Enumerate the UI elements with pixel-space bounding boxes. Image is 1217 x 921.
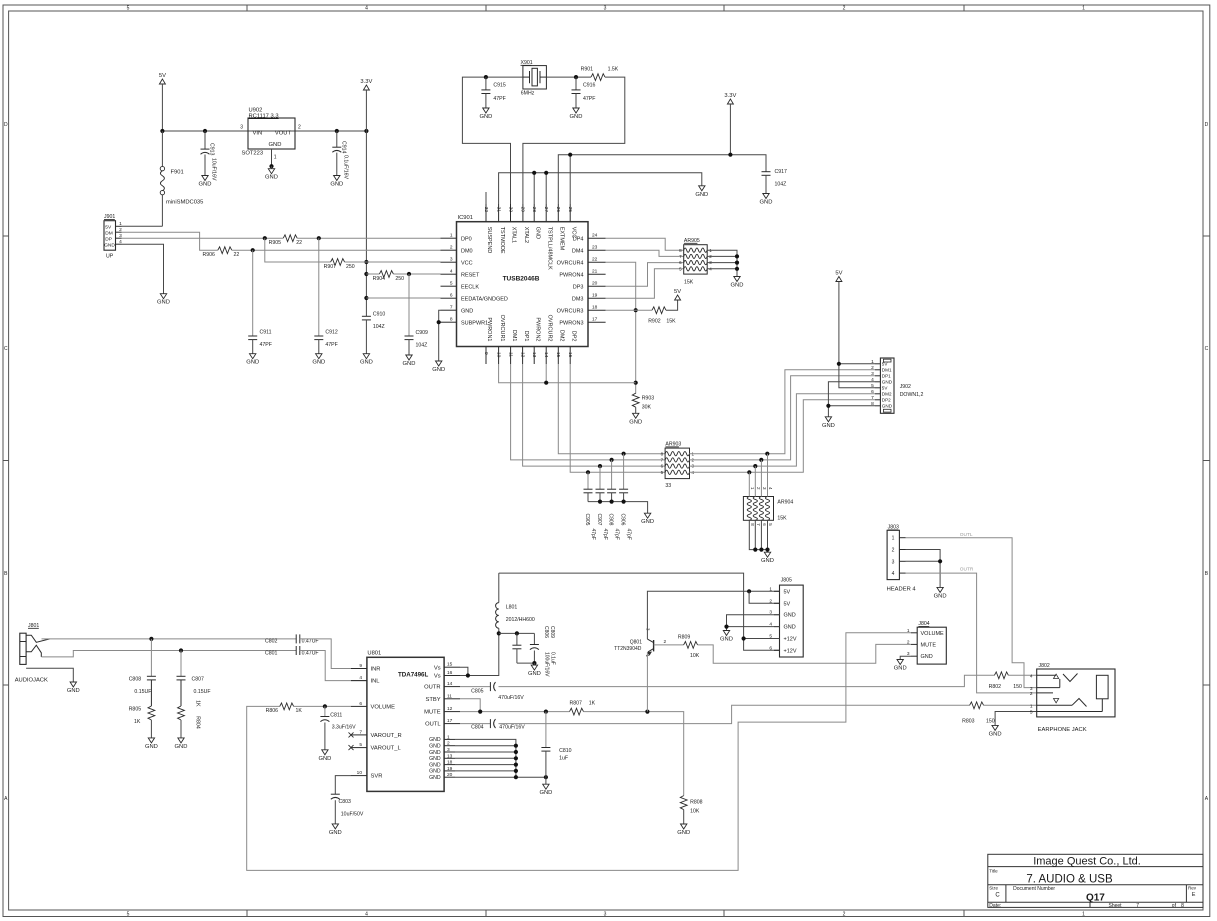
svg-text:C909: C909 (416, 330, 429, 336)
svg-text:10K: 10K (690, 653, 700, 659)
ground GND for AR905 (731, 277, 744, 289)
svg-text:HEADER 4: HEADER 4 (887, 587, 917, 593)
svg-text:GND: GND (629, 419, 642, 425)
wire R903 to ground (635, 407, 637, 413)
svg-text:VAROUT_L: VAROUT_L (371, 746, 402, 752)
svg-text:20: 20 (592, 281, 598, 287)
resistor R904 250 (373, 271, 405, 282)
IC901 top pin stubs and numbers (483, 204, 577, 270)
svg-text:F901: F901 (171, 170, 184, 176)
svg-text:2: 2 (871, 365, 874, 371)
svg-text:Date:: Date: (989, 903, 1001, 909)
svg-text:GND: GND (432, 367, 445, 373)
svg-text:12: 12 (519, 352, 525, 358)
wire J901 pin4 GND (122, 244, 164, 294)
wire J901 pin3 DP (122, 237, 265, 239)
svg-text:3: 3 (604, 912, 607, 918)
ground GND for SUBPWR (432, 361, 445, 373)
svg-text:L801: L801 (506, 605, 518, 611)
svg-text:2: 2 (1030, 691, 1033, 697)
svg-text:GND: GND (403, 361, 416, 367)
svg-text:R809: R809 (678, 634, 691, 640)
svg-text:R805: R805 (129, 707, 142, 713)
svg-text:OVRCUR1: OVRCUR1 (499, 315, 505, 342)
wire IC901 pin7 GND to pin8 SUBPWR1 and ground (437, 310, 441, 361)
svg-text:Title: Title (989, 869, 998, 874)
wire DM2 pin15 to AR903 pin8 (558, 364, 665, 454)
svg-text:R808: R808 (690, 800, 703, 806)
svg-text:C803: C803 (339, 799, 352, 805)
ground GND for earphone jack (989, 725, 1002, 737)
svg-text:5V: 5V (784, 601, 791, 607)
svg-text:GND: GND (534, 227, 540, 239)
svg-text:5V: 5V (674, 289, 681, 295)
svg-text:13: 13 (447, 753, 453, 759)
svg-text:3: 3 (447, 747, 450, 753)
svg-text:Document Number: Document Number (1013, 886, 1055, 892)
wire Q801 emitter to mute node (646, 652, 648, 711)
svg-text:DP0: DP0 (461, 236, 472, 242)
resistor R903 30K (632, 393, 654, 410)
resistor R808 10K (680, 796, 702, 824)
svg-text:5: 5 (359, 742, 362, 748)
wire jack sleeve to ground (26, 668, 73, 682)
svg-text:GND: GND (429, 750, 441, 756)
wire DP4 pin24 to AR905 pin8 (606, 238, 684, 250)
svg-text:9: 9 (483, 352, 489, 355)
wire R803 to earphone jack pin1 (984, 704, 1037, 706)
inductor L801 2012/HH600 (496, 573, 535, 633)
connector J902 DOWN1,2 (871, 358, 923, 413)
svg-text:2: 2 (769, 598, 772, 604)
power symbol 3.3V (360, 79, 372, 90)
svg-text:GND: GND (104, 242, 115, 248)
ground GND below C916 (570, 108, 583, 120)
svg-text:2: 2 (892, 548, 895, 554)
svg-text:8: 8 (450, 317, 453, 323)
resistor R902 15K (648, 307, 676, 324)
svg-text:+12V: +12V (784, 648, 797, 654)
svg-text:GND: GND (329, 830, 342, 836)
wire OVRCUR3 pin18 to R902 (606, 309, 652, 311)
svg-text:R807: R807 (570, 700, 583, 706)
svg-text:GND: GND (921, 654, 933, 660)
svg-text:D: D (4, 122, 8, 128)
svg-text:C809: C809 (549, 626, 555, 638)
svg-text:5V: 5V (882, 362, 889, 367)
svg-text:1K: 1K (589, 700, 596, 706)
svg-text:1: 1 (447, 734, 450, 740)
capacitor C802 0.47UF (265, 634, 319, 644)
svg-text:12: 12 (447, 706, 453, 712)
ground GND below C803 (329, 824, 342, 836)
svg-text:AR904: AR904 (777, 500, 793, 506)
ground GND below AR904 (761, 552, 774, 564)
svg-text:22: 22 (234, 252, 240, 258)
svg-text:J902: J902 (900, 384, 911, 390)
svg-text:19: 19 (447, 766, 453, 772)
node junctions on 3.3V rail (364, 260, 368, 300)
wire R901 to XTAL2 loop (523, 77, 625, 204)
svg-text:15K: 15K (777, 516, 787, 522)
svg-text:C912: C912 (325, 329, 338, 335)
wire DP pullup branch down to R907 row (265, 238, 331, 262)
svg-text:J805: J805 (781, 578, 792, 584)
resistor R805 1K (129, 706, 155, 738)
svg-text:1K: 1K (134, 719, 141, 725)
svg-text:4: 4 (365, 912, 368, 918)
ground GND for audio jack (67, 682, 80, 694)
svg-text:5: 5 (127, 6, 130, 12)
svg-text:0.47UF: 0.47UF (302, 650, 319, 656)
wire OVRCUR1 pin10 / OVRCUR2 pin14 bus (499, 364, 636, 385)
svg-text:3: 3 (604, 6, 607, 12)
ground GND below C915 (479, 108, 492, 120)
svg-text:4: 4 (871, 377, 874, 383)
svg-text:C905: C905 (584, 514, 590, 526)
svg-text:TSTMODE: TSTMODE (499, 227, 505, 254)
svg-text:10uF/16V: 10uF/16V (211, 158, 217, 181)
wire AR903 out row3 to J902 DM2 (690, 394, 876, 468)
wire VOLUME loop from J804 pin1 (247, 633, 911, 871)
svg-text:TUSB2046B: TUSB2046B (503, 276, 540, 283)
node junction dots on 5V line (160, 129, 368, 133)
svg-text:PWRON2: PWRON2 (534, 317, 540, 341)
svg-text:GND: GND (330, 182, 343, 188)
wire 3.3V to VCC pin25 and EXTMEM pin26 (558, 104, 766, 204)
svg-text:15: 15 (447, 662, 453, 668)
svg-text:100uF/16V: 100uF/16V (544, 652, 550, 677)
svg-text:GND: GND (67, 688, 80, 694)
svg-text:VCC: VCC (570, 227, 576, 239)
svg-text:150: 150 (1013, 684, 1022, 690)
svg-text:DP1: DP1 (523, 331, 529, 342)
svg-text:2: 2 (450, 245, 453, 251)
svg-text:1: 1 (1030, 704, 1033, 710)
svg-text:miniSMDC035: miniSMDC035 (166, 200, 203, 206)
svg-text:250: 250 (346, 264, 355, 270)
svg-text:5: 5 (127, 912, 130, 918)
svg-text:C811: C811 (330, 713, 342, 719)
svg-text:1uF: 1uF (559, 755, 568, 761)
svg-text:DM2: DM2 (882, 392, 892, 397)
svg-text:22: 22 (296, 240, 302, 246)
svg-text:Rev: Rev (1188, 886, 1197, 891)
svg-text:R803: R803 (962, 718, 975, 724)
wire R806 to VOLUME pin (294, 704, 351, 708)
wire DP3 pin20 to AR905 pin6 (606, 263, 684, 287)
svg-text:470uF/16V: 470uF/16V (499, 724, 525, 730)
svg-text:DM1: DM1 (511, 330, 517, 342)
svg-text:19: 19 (592, 293, 598, 299)
svg-text:R905: R905 (269, 240, 282, 246)
wire AR905 outputs to ground bus (707, 250, 739, 276)
svg-text:5V: 5V (882, 386, 889, 391)
svg-text:GND: GND (539, 790, 552, 796)
svg-text:VOUT: VOUT (275, 131, 292, 137)
svg-text:3: 3 (1030, 686, 1033, 692)
svg-text:17: 17 (447, 718, 453, 724)
svg-text:C916: C916 (583, 83, 596, 89)
wire MUTE row (460, 710, 570, 714)
capacitor C809 0.1uF (530, 626, 556, 665)
regulator U902 RC1117 3.3 SOT223 (240, 108, 301, 169)
svg-text:33: 33 (665, 483, 671, 489)
wire SUSPEND pin32 stub (485, 192, 487, 204)
svg-text:6: 6 (769, 645, 772, 651)
svg-text:7: 7 (871, 395, 874, 401)
svg-text:16: 16 (447, 670, 453, 676)
svg-text:6: 6 (871, 389, 874, 395)
svg-text:TDA7496L: TDA7496L (398, 672, 428, 679)
wire J804 GND pin3 (900, 656, 911, 659)
svg-text:C: C (1205, 346, 1209, 352)
svg-text:VAROUT_R: VAROUT_R (371, 733, 402, 739)
crystal X901 6MHz (521, 60, 547, 97)
svg-text:15K: 15K (666, 318, 676, 324)
wire OUTL from C804 to R803 (499, 705, 970, 723)
wire AR903 out row2 to J902 DP1 (690, 376, 876, 462)
svg-text:30: 30 (507, 207, 513, 213)
svg-text:5V: 5V (105, 225, 112, 231)
ground GND below R804 (175, 738, 188, 750)
svg-text:470uF/16V: 470uF/16V (498, 695, 524, 701)
svg-text:47PF: 47PF (325, 342, 337, 348)
svg-text:R906: R906 (202, 252, 215, 258)
svg-text:29: 29 (520, 207, 526, 213)
capacitor C905 47pF (584, 472, 596, 540)
capacitor C910 104Z (362, 311, 386, 353)
svg-text:11: 11 (447, 693, 452, 699)
svg-text:7: 7 (359, 729, 362, 735)
svg-text:10uF/50V: 10uF/50V (341, 812, 364, 818)
svg-text:1: 1 (274, 155, 277, 161)
capacitor C801 0.47UF (265, 646, 319, 656)
resistor array AR904 15K (743, 487, 793, 526)
connector J801 AUDIOJACK (15, 623, 50, 684)
node junction L801 bottom (497, 631, 501, 635)
capacitor C909 104Z (405, 274, 429, 355)
svg-text:R902: R902 (648, 318, 661, 324)
node junctions on audio inputs (149, 637, 183, 653)
svg-text:PWRON3: PWRON3 (559, 320, 583, 326)
svg-text:GND: GND (429, 756, 441, 762)
svg-text:14: 14 (543, 352, 549, 358)
resistor R809 10K (678, 634, 700, 659)
svg-text:47PF: 47PF (493, 96, 505, 102)
svg-text:C914: C914 (340, 141, 346, 154)
svg-text:GND: GND (157, 300, 170, 306)
svg-text:4: 4 (365, 6, 368, 12)
svg-text:Size: Size (989, 886, 998, 891)
svg-text:C907: C907 (596, 514, 602, 526)
wire audio L channel from jack (42, 651, 297, 657)
svg-text:26: 26 (555, 207, 561, 213)
svg-text:XTAL2: XTAL2 (523, 227, 529, 243)
resistor R901 1.5K (581, 67, 619, 81)
svg-text:DP2: DP2 (882, 398, 891, 403)
svg-text:18: 18 (447, 760, 453, 766)
power symbol 5V (top-left) (159, 73, 166, 131)
svg-text:DM0: DM0 (461, 248, 473, 254)
svg-text:EEDATA/GNDGED: EEDATA/GNDGED (461, 296, 508, 302)
svg-text:47pF: 47pF (590, 529, 596, 540)
svg-text:C807: C807 (192, 677, 205, 683)
svg-text:15: 15 (555, 352, 561, 358)
svg-text:0.47UF: 0.47UF (302, 639, 319, 645)
wire crystal right net to R901 (546, 75, 591, 79)
ground GND below C909 (403, 355, 416, 367)
svg-text:DM: DM (105, 230, 112, 236)
svg-text:22: 22 (592, 257, 598, 263)
ground GND below C912 (312, 354, 325, 366)
svg-text:47pF: 47pF (602, 529, 608, 540)
svg-text:DP1: DP1 (882, 374, 891, 379)
svg-text:C806: C806 (543, 626, 549, 638)
svg-text:Vs: Vs (434, 665, 441, 671)
capacitor C906 47pF (619, 454, 631, 540)
svg-text:2: 2 (447, 741, 450, 747)
power symbol 5V (J902) (835, 271, 842, 282)
svg-text:GND: GND (784, 625, 796, 631)
ground GND below C809 (528, 663, 541, 677)
svg-text:13: 13 (531, 352, 537, 358)
svg-text:GND: GND (989, 731, 1002, 737)
svg-text:16: 16 (567, 352, 573, 358)
svg-text:UP: UP (106, 254, 114, 260)
wire J803 pins 2/3 to ground (906, 550, 943, 588)
capacitor C916 47PF (572, 77, 596, 108)
svg-text:of: of (1172, 903, 1177, 909)
svg-text:C: C (995, 893, 1000, 899)
svg-text:OUTR: OUTR (424, 685, 440, 691)
wire bypass cap ground bus (588, 500, 648, 514)
svg-text:1: 1 (1082, 6, 1085, 12)
capacitor C917 104Z (762, 169, 788, 194)
svg-text:GND: GND (882, 404, 893, 409)
svg-text:9: 9 (359, 663, 362, 669)
svg-text:Q801: Q801 (630, 640, 642, 646)
svg-text:VOLUME: VOLUME (371, 705, 396, 711)
svg-text:R806: R806 (266, 708, 279, 714)
svg-text:2: 2 (843, 912, 846, 918)
svg-text:STBY: STBY (425, 697, 440, 703)
wire AR904 pins to AR903 rows (749, 454, 767, 497)
svg-text:R907: R907 (324, 264, 337, 270)
svg-text:DM3: DM3 (572, 296, 584, 302)
capacitor C804 470uF/16V (460, 719, 525, 730)
capacitor C805 470uF/16V (460, 682, 524, 701)
svg-text:VCC: VCC (461, 260, 473, 266)
wire Q801 base to R809 (654, 644, 684, 646)
wire R907 to 3.3V rail and IC pin3 VCC (345, 261, 441, 263)
connector J805 (769, 578, 803, 658)
svg-text:150: 150 (986, 718, 995, 724)
svg-text:104Z: 104Z (775, 182, 787, 188)
svg-text:1K: 1K (195, 700, 201, 707)
svg-text:Q17: Q17 (1086, 893, 1105, 904)
svg-text:5: 5 (450, 281, 453, 287)
svg-text:GND: GND (934, 593, 947, 599)
svg-text:DOWN1,2: DOWN1,2 (900, 392, 924, 398)
svg-text:250: 250 (395, 276, 404, 282)
svg-text:C810: C810 (559, 748, 572, 754)
svg-text:1: 1 (450, 233, 453, 239)
svg-text:MUTE: MUTE (424, 710, 441, 716)
resistor R804 1K (178, 700, 201, 738)
wire J902 GND pins 4 and 8 (826, 382, 875, 417)
ground GND for J805 (720, 631, 733, 643)
ground GND below C917 (760, 194, 773, 206)
svg-text:3: 3 (892, 559, 895, 565)
svg-text:0.15UF: 0.15UF (194, 689, 211, 695)
wire R904 to IC pin4 RESET (393, 272, 440, 276)
svg-text:GND: GND (528, 671, 541, 677)
ground GND for J901 pin4 (157, 294, 170, 306)
svg-text:104Z: 104Z (416, 342, 428, 348)
svg-text:C910: C910 (373, 311, 386, 317)
capacitor C914 0.1uF/16V (332, 131, 348, 179)
capacitor C912 47PF (314, 238, 338, 354)
svg-text:C913: C913 (209, 143, 215, 156)
svg-text:GND: GND (784, 613, 796, 619)
IC901 left pin stubs and numbers (441, 233, 508, 327)
svg-text:1.5K: 1.5K (608, 67, 619, 73)
svg-text:17: 17 (592, 317, 598, 323)
svg-text:C805: C805 (471, 688, 484, 694)
svg-text:GND: GND (429, 775, 441, 781)
svg-text:GND: GND (199, 182, 212, 188)
U801 right pins (424, 662, 460, 781)
svg-text:OUTR: OUTR (960, 567, 974, 573)
svg-text:RESET: RESET (461, 272, 480, 278)
svg-text:C: C (4, 346, 8, 352)
wire earphone jack pin5 ground (995, 712, 1037, 726)
svg-text:OVRCUR2: OVRCUR2 (546, 315, 552, 342)
svg-text:Sheet: Sheet (1109, 903, 1123, 909)
svg-text:10K: 10K (690, 809, 700, 815)
ground GND below C910 (360, 354, 373, 366)
svg-text:+12V: +12V (784, 637, 797, 643)
wire 5V rail to regulator (162, 130, 366, 132)
wire OUTR from C805 to R802 (499, 675, 995, 686)
svg-text:E: E (1192, 892, 1196, 898)
connector J802 EARPHONE JACK (1030, 663, 1115, 733)
svg-text:5V: 5V (784, 589, 791, 595)
svg-text:5V: 5V (159, 73, 166, 79)
svg-text:6: 6 (359, 701, 362, 707)
svg-text:10: 10 (495, 352, 501, 358)
wire R906 to IC pin2 DM0 (232, 249, 441, 251)
svg-text:DM2: DM2 (559, 330, 565, 342)
node junction C911 (251, 248, 255, 252)
svg-text:47PF: 47PF (260, 342, 272, 348)
svg-text:30K: 30K (642, 405, 652, 411)
svg-text:10: 10 (357, 770, 363, 776)
svg-text:GND: GND (461, 308, 473, 314)
svg-text:4: 4 (1030, 674, 1033, 680)
wire Vs pins join to L801 (460, 633, 499, 677)
svg-text:C802: C802 (265, 639, 278, 645)
capacitor C908 47pF (607, 460, 619, 540)
svg-text:1: 1 (1082, 912, 1085, 918)
svg-text:2: 2 (298, 125, 301, 131)
svg-text:15K: 15K (684, 279, 694, 285)
svg-text:104Z: 104Z (373, 324, 385, 330)
wire DM1 pin11 to AR903 pin7 (511, 364, 665, 460)
wire DP junction to R905 and on to IC pin1 DP0 (263, 236, 441, 240)
svg-text:C804: C804 (471, 724, 484, 730)
